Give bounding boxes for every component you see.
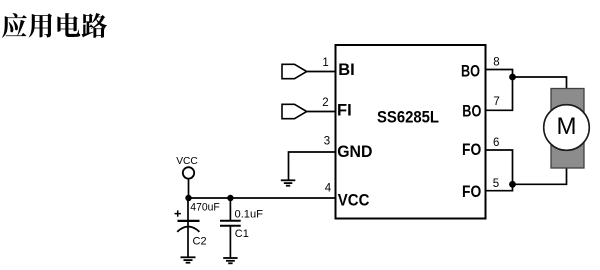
svg-text:GND: GND <box>337 143 372 161</box>
motor body rectangle <box>551 89 584 169</box>
svg-text:0.1uF: 0.1uF <box>235 209 264 221</box>
capacitor C2 bottom plate (arc) <box>177 227 199 232</box>
ground (pin 3) <box>281 180 296 185</box>
IC U1 SS6285L body <box>336 45 486 219</box>
svg-text:3: 3 <box>324 135 330 147</box>
wire C2 bottom lead <box>187 222 189 258</box>
node junction FO <box>509 181 516 188</box>
VCC terminal circle <box>183 167 194 178</box>
svg-text:M: M <box>557 113 577 140</box>
input flag BI <box>282 64 307 78</box>
node junction at C1 top <box>227 195 233 201</box>
svg-text:C1: C1 <box>235 228 249 240</box>
svg-text:5: 5 <box>493 178 499 190</box>
svg-text:470uF: 470uF <box>190 201 220 213</box>
capacitor C1 bottom plate <box>220 225 241 227</box>
motor M1 circle <box>544 105 590 151</box>
wire BO junction to motor top <box>513 77 567 89</box>
svg-text:FO: FO <box>462 183 481 201</box>
wire VCC terminal down to rail <box>188 179 190 198</box>
wire pins 8-7 bracket <box>487 70 513 111</box>
svg-text:C2: C2 <box>193 235 207 247</box>
wire flag2 to pin 2 <box>307 111 336 113</box>
wire pins 6-5 bracket <box>487 150 513 191</box>
svg-text:VCC: VCC <box>338 192 370 210</box>
wire pin 3 to ground <box>289 152 336 180</box>
svg-text:BO: BO <box>462 103 481 121</box>
svg-text:4: 4 <box>325 182 332 194</box>
capacitor C2 plus sign <box>175 210 181 216</box>
svg-text:2: 2 <box>322 97 328 109</box>
svg-text:SS6285L: SS6285L <box>377 108 439 127</box>
wire flag1 to pin 1 <box>307 71 336 73</box>
ground (C2) <box>181 257 196 262</box>
node junction BO <box>509 74 516 81</box>
node junction at C2 top <box>185 195 191 201</box>
svg-text:FI: FI <box>337 102 352 120</box>
wire C1 top lead <box>229 198 231 220</box>
svg-text:FO: FO <box>462 141 481 159</box>
svg-text:7: 7 <box>493 96 499 108</box>
svg-text:6: 6 <box>493 137 499 149</box>
wire FO junction to motor bottom <box>513 168 567 184</box>
wire C1 bottom lead <box>229 227 231 259</box>
wire C2 top lead <box>187 198 189 220</box>
title 应用电路 <box>2 13 107 38</box>
svg-text:VCC: VCC <box>176 156 198 167</box>
svg-text:1: 1 <box>322 57 328 69</box>
capacitor C1 top plate <box>220 220 241 222</box>
svg-text:BI: BI <box>338 61 355 79</box>
wire VCC rail to pin 4 <box>189 197 336 199</box>
input flag FI <box>282 104 307 118</box>
svg-text:8: 8 <box>493 56 499 68</box>
ground (C1) <box>223 258 237 263</box>
svg-text:BO: BO <box>461 63 480 81</box>
capacitor C2 top plate <box>178 220 200 222</box>
